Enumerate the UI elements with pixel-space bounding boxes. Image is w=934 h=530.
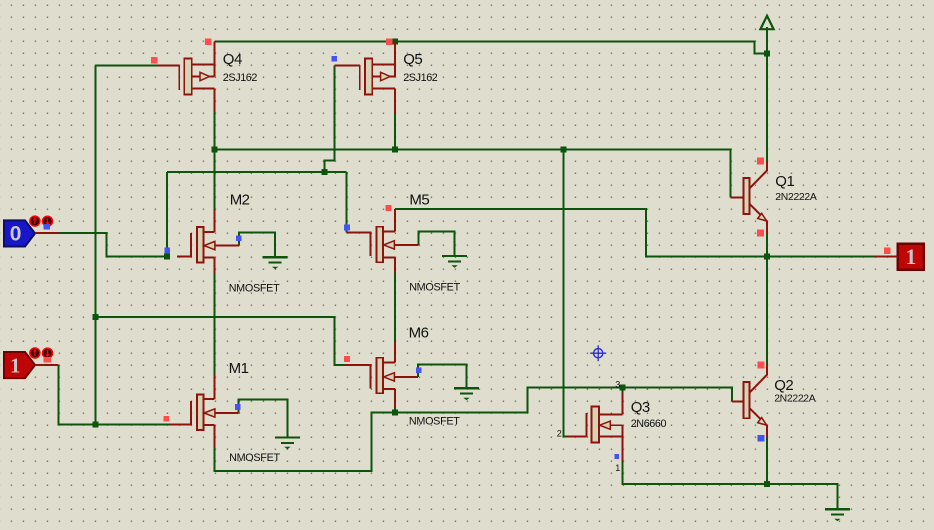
transistor Q3 drain pin up [622, 393, 624, 415]
input pin logic state 1 [4, 352, 35, 378]
junction M6 source [392, 410, 398, 416]
input 0 state square (low) [44, 224, 50, 230]
state square Q5 source (high) [386, 39, 392, 45]
state square M6 gate (high) [344, 356, 350, 362]
transistor Q4 source pin up [213, 42, 215, 65]
wire M6 bulk to ground [418, 364, 466, 388]
svg-text:3: 3 [615, 379, 620, 389]
junction input-0 net at M2 gate column [164, 254, 170, 260]
input 1 pin wire [35, 364, 59, 366]
transistor Q3 conductor down [622, 425, 624, 461]
transistor M5 source pin down [394, 257, 396, 272]
state square Q3 source (low) [614, 454, 619, 459]
svg-text:2: 2 [557, 429, 562, 439]
svg-text:NMOSFET: NMOSFET [229, 282, 280, 294]
transistor Q2 collector [749, 375, 767, 393]
state square M6 bulk (low) [416, 367, 422, 373]
ground at M1 bulk [275, 437, 300, 449]
svg-text:M2: M2 [230, 192, 250, 209]
transistor Q2 base plate [744, 382, 750, 418]
junction Q5 source at VCC rail [392, 39, 398, 45]
input 0 toggle down button [43, 216, 53, 226]
junction net A at Q5 drain [392, 146, 398, 152]
transistor Q1 collector [749, 171, 767, 189]
svg-text:Q2: Q2 [774, 377, 793, 394]
transistor M2 drain pin up [213, 209, 215, 232]
wire VCC top rail [214, 42, 767, 54]
svg-text:Q5: Q5 [403, 51, 422, 68]
output pin wire [874, 256, 898, 258]
transistor M6 source stub [383, 388, 395, 390]
wire M5 bulk to ground [419, 232, 455, 256]
transistor M5 gate pin [347, 231, 371, 233]
transistor M5 drain pin up [394, 209, 396, 231]
transistor Q4 gate pin [158, 65, 180, 67]
transistor Q4 gate lead [178, 65, 180, 90]
junction net 3 at Q3 drain [620, 385, 626, 391]
transistor Q4 inner conductor [213, 64, 215, 76]
transistor M5 gate lead [370, 231, 372, 256]
junction net A at x214 [211, 146, 217, 152]
transistor Q5 drain pin down [394, 89, 396, 113]
wire Q3 gate column down from net A [563, 149, 566, 436]
transistor Q5 inner conductor [394, 64, 396, 76]
junction Q2 emitter at ground wire [764, 481, 770, 487]
wire M6 source pin to junction [394, 408, 396, 413]
transistor Q5 drain stub [372, 88, 395, 90]
svg-text:NMOSFET: NMOSFET [409, 282, 460, 294]
transistor Q4 source stub [192, 63, 215, 65]
transistor Q3 gate lead [586, 413, 588, 437]
svg-text:NMOSFET: NMOSFET [409, 415, 460, 427]
svg-text:2SJ162: 2SJ162 [403, 72, 438, 84]
transistor M2 gate lead [190, 233, 192, 258]
state square Q4 gate (high) [151, 57, 157, 63]
transistor Q1 emitter [749, 204, 767, 222]
wire input-1 net to M6 gate [95, 317, 344, 365]
wire Q5 gate drop with jog [325, 66, 335, 173]
wire Q3 source / Q2 emitter to ground [623, 462, 838, 510]
transistor M5 body plate [376, 227, 383, 262]
wire Q4 gate horizontal [95, 65, 157, 67]
transistor M2 bulk arrow [204, 241, 215, 249]
state square Q2 emitter (low) [758, 435, 765, 442]
svg-text:2N2222A: 2N2222A [774, 394, 816, 405]
state square M5 gate (low) [344, 225, 350, 231]
svg-text:1: 1 [905, 244, 916, 269]
wire input 1 to M1 gate [59, 365, 173, 425]
state square M1 bulk (low) [235, 404, 241, 410]
wire M1 source to M6 source junction [214, 413, 395, 471]
junction input-0 net at Q5 gate branch [322, 169, 328, 175]
svg-text:NMOSFET: NMOSFET [229, 452, 280, 464]
wire Q4 drain to M2 drain [213, 112, 215, 209]
transistor Q1 base plate [744, 178, 750, 214]
svg-text:1: 1 [10, 353, 21, 377]
junction VCC rail / arrow stem [764, 51, 770, 57]
svg-text:2N2222A: 2N2222A [775, 192, 817, 203]
svg-text:2N6660: 2N6660 [631, 418, 667, 430]
input 1 state square (high) [44, 357, 51, 362]
wire input-1 column (Q4 gate down to M1 gate) [94, 66, 96, 425]
wire M2 bulk to ground [239, 232, 275, 257]
wire Q3 drain link to net 3 [622, 388, 624, 393]
transistor Q4 body plate [184, 58, 191, 94]
wire M1 bulk to ground [239, 399, 288, 437]
transistor M2 drain stub [204, 231, 215, 233]
junction input-1 net at M6 gate branch [92, 314, 98, 320]
state square M2 gate (low) [164, 248, 170, 254]
wire VCC stem down to Q1 collector [766, 54, 768, 161]
svg-text:0: 0 [10, 223, 22, 246]
input 1 toggle down button [43, 348, 53, 358]
ground at M6 bulk [454, 388, 479, 400]
wire M5 source to M6 drain [394, 273, 396, 342]
transistor M1 drain pin up [213, 374, 215, 399]
transistor Q5 body plate [365, 58, 372, 94]
wire M6 source net to Q2 base [395, 388, 732, 413]
transistor M1 source stub [204, 424, 215, 426]
transistor M2 source pin down [213, 258, 215, 274]
state square Q2 collector (high) [757, 362, 764, 369]
wire Q1 emitter to output junction [766, 233, 768, 257]
transistor Q4 bulk arrow [192, 76, 200, 78]
output pin logic probe 1 [898, 244, 924, 270]
transistor M2 body plate [197, 227, 204, 262]
transistor M5 bulk arrow [384, 241, 395, 249]
transistor M6 source pin down [394, 389, 396, 408]
junction net A at Q3 gate branch [560, 146, 566, 152]
transistor M1 bulk arrow [204, 409, 215, 417]
transistor M2 source stub [204, 257, 215, 259]
wire net A from Q4/M2 drain to Q1 base [214, 149, 730, 197]
svg-text:M1: M1 [229, 360, 249, 377]
transistor Q3 drain stub pin 3 [599, 413, 623, 415]
state square Q5 gate (low) [332, 56, 338, 62]
wire output junction down to Q2 collector [766, 257, 768, 366]
transistor M6 gate pin [345, 364, 371, 366]
wire Q5 drain down to net A [394, 113, 396, 149]
input 0 toggle up button [30, 216, 40, 226]
wire Q2 emitter down [766, 437, 768, 484]
ground at Q2/Q3 emitter net [825, 509, 850, 521]
transistor Q2 emitter [749, 408, 767, 426]
svg-text:M6: M6 [409, 325, 429, 342]
transistor Q3 bulk arrow [600, 421, 611, 429]
transistor M1 drain stub [204, 398, 215, 400]
transistor Q5 source pin up [394, 42, 396, 65]
svg-text:1: 1 [615, 463, 620, 473]
transistor M1 gate lead [190, 401, 192, 426]
wire drop to M5 gate [346, 172, 348, 232]
power VCC arrow [760, 16, 773, 54]
transistor M6 bulk arrow [384, 373, 395, 381]
transistor Q3 body plate [592, 407, 599, 443]
transistor M5 drain stub [383, 231, 395, 233]
transistor Q3 gate pin 2 [567, 435, 587, 437]
transistor M6 body plate [376, 358, 383, 393]
transistor Q5 bulk arrow [372, 76, 380, 78]
transistor M2 gate pin [177, 256, 191, 258]
input 0 pin wire [35, 232, 58, 234]
svg-text:Q1: Q1 [775, 173, 794, 190]
state square M2 bulk (low) [236, 235, 242, 241]
origin marker [590, 345, 606, 361]
junction input-1 net at M1 gate row [92, 422, 98, 428]
state square Q1 emitter (high) [757, 230, 764, 237]
state square Q1 collector (high) [757, 158, 764, 165]
input 1 toggle up button [30, 348, 40, 358]
wire M5 drain to output rail [395, 209, 874, 257]
svg-text:Q3: Q3 [631, 399, 650, 416]
junction output rail at Q1 emitter / Q2 collector [764, 254, 770, 260]
transistor M1 source pin down [213, 425, 215, 447]
ground at M5 bulk [442, 256, 467, 268]
state square M1 gate (high) [164, 416, 169, 421]
transistor M5 source stub [383, 256, 395, 258]
transistor Q1 base pin [731, 196, 744, 198]
state square M5 drain (high) [386, 205, 392, 211]
transistor Q2 base pin [732, 400, 744, 402]
wire M2 gate column up [166, 172, 168, 256]
wire M2 source to M1 drain [213, 273, 215, 374]
wire input 0 to M2 gate [58, 233, 167, 256]
ground at M2 bulk [263, 257, 288, 269]
svg-text:2SJ162: 2SJ162 [223, 72, 258, 84]
transistor Q4 drain pin down [213, 89, 215, 112]
transistor Q3 source stub pin 1 [599, 435, 623, 437]
transistor Q5 gate lead [359, 65, 361, 90]
transistor M1 gate pin [170, 424, 191, 426]
wire input-0 net horizontal to M5/Q5 gates [167, 171, 347, 173]
state square Q4 source (high) [205, 39, 212, 46]
transistor M6 gate lead [370, 364, 372, 389]
transistor M6 drain stub [383, 361, 395, 363]
transistor Q5 gate pin [334, 65, 360, 67]
transistor Q5 source stub [372, 63, 395, 65]
svg-text:Q4: Q4 [223, 51, 242, 68]
transistor Q4 drain stub [192, 88, 215, 90]
transistor M6 drain pin up [394, 341, 396, 362]
output state square (high) [884, 247, 890, 253]
transistor M1 body plate [197, 395, 204, 430]
input pin logic state 0 [4, 220, 35, 246]
svg-text:M5: M5 [409, 192, 429, 209]
